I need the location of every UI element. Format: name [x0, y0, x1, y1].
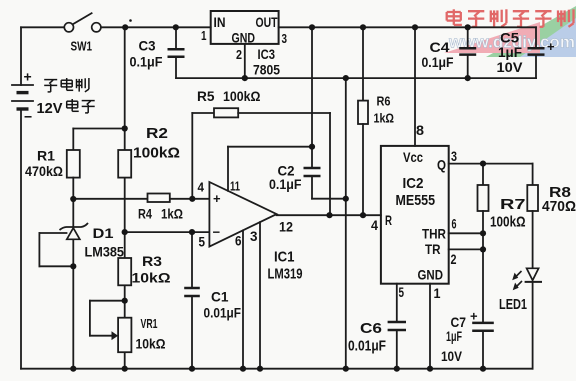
- resistor R7: [482, 164, 484, 185]
- wire R1 bottom to D1: [72, 178, 74, 227]
- junction dots bottom rail: [70, 366, 76, 372]
- svg-text:+: +: [470, 309, 478, 324]
- svg-text:470kΩ: 470kΩ: [25, 163, 63, 179]
- node D1 loop: [70, 263, 76, 269]
- capacitor C2: [304, 167, 321, 170]
- label 被监视: [44, 79, 57, 81]
- svg-text:+: +: [213, 191, 221, 206]
- svg-text:R5: R5: [197, 88, 215, 104]
- wire D1 side loop: [39, 232, 66, 234]
- svg-text:C3: C3: [139, 38, 156, 54]
- svg-text:+: +: [547, 39, 555, 54]
- svg-text:+: +: [24, 69, 32, 85]
- capacitor C5: [535, 27, 537, 48]
- op-amp IC1 LM319: [209, 182, 276, 247]
- svg-text:IC1: IC1: [274, 249, 295, 266]
- svg-text:R7: R7: [500, 196, 526, 213]
- resistor R8: [532, 164, 534, 185]
- capacitor C6: [388, 321, 406, 324]
- wire R1 top branch: [73, 128, 124, 130]
- svg-text:5: 5: [399, 284, 405, 300]
- watermark logo shapes: [444, 6, 576, 57]
- wire 555 Vcc pin 8: [414, 27, 416, 146]
- capacitor C3: [175, 27, 177, 49]
- wire op-amp pin 3: [259, 222, 261, 369]
- svg-text:1kΩ: 1kΩ: [161, 207, 183, 222]
- wire 555 THR pin 6: [449, 232, 483, 234]
- regulator IC3 7805: [211, 11, 279, 44]
- wire ground rail y78: [176, 77, 536, 79]
- svg-text:R4: R4: [138, 207, 152, 222]
- svg-text:SW1: SW1: [71, 39, 93, 54]
- svg-text:IC3: IC3: [258, 46, 276, 62]
- svg-text:R2: R2: [146, 125, 168, 142]
- svg-text:10V: 10V: [497, 59, 524, 75]
- svg-text:10kΩ: 10kΩ: [132, 270, 171, 286]
- resistor R1: [67, 150, 80, 178]
- wire R5 feedback left leg: [191, 113, 193, 199]
- LED LED1: [512, 268, 542, 368]
- svg-text:Vcc: Vcc: [403, 149, 423, 165]
- svg-text:0.01μF: 0.01μF: [204, 305, 242, 321]
- resistor R4: [148, 194, 170, 203]
- svg-text:R1: R1: [37, 148, 55, 164]
- speck artifact: [129, 19, 132, 22]
- svg-text:LM319: LM319: [268, 266, 303, 283]
- wire op-amp output pin 12: [277, 214, 381, 216]
- svg-text:3: 3: [250, 228, 258, 244]
- svg-text:6: 6: [235, 233, 242, 249]
- svg-text:OUT: OUT: [256, 14, 278, 30]
- svg-text:6: 6: [452, 216, 457, 232]
- switch SW1: [64, 13, 101, 32]
- wire R2 branch from top rail: [124, 27, 126, 150]
- svg-text:2: 2: [451, 251, 457, 267]
- svg-text:0.1μF: 0.1μF: [422, 54, 454, 70]
- 7805 pin 2 wire: [244, 44, 246, 78]
- svg-text:IC2: IC2: [403, 175, 424, 192]
- svg-text:THR: THR: [422, 226, 446, 242]
- svg-text:3: 3: [282, 31, 288, 46]
- timer IC2 ME555: [381, 146, 449, 284]
- svg-text:−: −: [213, 225, 221, 240]
- diode D1 LM385: [60, 223, 89, 239]
- svg-text:GND: GND: [418, 267, 444, 283]
- wire +5V drop to C2: [311, 27, 313, 168]
- wire top +12V rail left segment: [21, 26, 64, 28]
- svg-text:10kΩ: 10kΩ: [136, 337, 166, 352]
- node VR1 wiper: [122, 298, 128, 304]
- svg-text:11: 11: [230, 179, 240, 194]
- wire bottom ground rail: [21, 368, 533, 370]
- wire noninverting input row: [73, 198, 147, 200]
- node pin11: [309, 144, 315, 150]
- resistor R3: [118, 258, 131, 285]
- wire 555 pin 5 to C6: [396, 284, 398, 322]
- svg-text:5: 5: [199, 234, 206, 250]
- capacitor C4: [467, 27, 469, 48]
- svg-text:ME555: ME555: [396, 192, 436, 209]
- svg-text:R: R: [385, 212, 392, 228]
- svg-text:1kΩ: 1kΩ: [374, 111, 395, 126]
- svg-text:100kΩ: 100kΩ: [133, 145, 180, 162]
- nodes output rail: [326, 212, 332, 218]
- svg-text:R6: R6: [377, 94, 391, 109]
- capacitor C7: [472, 322, 494, 325]
- nodes Q / THR / TR column: [480, 161, 486, 167]
- junction dots top rail: [122, 24, 128, 30]
- wire left rail from battery: [20, 27, 22, 85]
- resistor R5: [214, 108, 238, 117]
- svg-text:100kΩ: 100kΩ: [490, 214, 526, 231]
- svg-text:IN: IN: [214, 14, 226, 30]
- potentiometer VR1: [118, 318, 131, 353]
- svg-text:10V: 10V: [441, 348, 463, 364]
- wire op-amp pin 6: [242, 230, 244, 368]
- svg-text:0.01μF: 0.01μF: [348, 338, 386, 355]
- svg-text:0.1μF: 0.1μF: [269, 176, 302, 192]
- capacitor C1: [191, 232, 193, 288]
- svg-text:LED1: LED1: [499, 296, 527, 313]
- battery 12V plates: [12, 85, 33, 109]
- node C2 gnd: [343, 196, 349, 202]
- wire 555 Q pin 3: [449, 163, 533, 165]
- wire 555 GND pin 1: [429, 284, 431, 369]
- svg-text:TR: TR: [425, 241, 441, 257]
- svg-text:4: 4: [198, 180, 205, 195]
- svg-text:8: 8: [416, 122, 424, 138]
- svg-text:2: 2: [236, 47, 242, 62]
- svg-text:12: 12: [279, 219, 293, 235]
- svg-text:C1: C1: [211, 289, 229, 305]
- svg-text:C6: C6: [360, 320, 382, 337]
- nodes inverting input: [122, 229, 128, 235]
- svg-text:1μF: 1μF: [498, 44, 522, 60]
- svg-text:Q: Q: [437, 157, 446, 173]
- svg-text:470Ω: 470Ω: [542, 198, 576, 215]
- node R1 top: [122, 125, 128, 131]
- svg-text:1: 1: [201, 28, 207, 43]
- svg-text:R3: R3: [142, 253, 162, 269]
- svg-text:7805: 7805: [253, 62, 280, 78]
- nodes noninverting input: [70, 196, 76, 202]
- svg-text:GND: GND: [232, 30, 256, 46]
- svg-text:12V: 12V: [37, 100, 63, 117]
- svg-text:−: −: [24, 109, 32, 125]
- svg-text:4: 4: [371, 217, 378, 233]
- resistor R2: [118, 150, 131, 178]
- svg-text:100kΩ: 100kΩ: [223, 88, 261, 104]
- wire op-amp pin 11: [227, 147, 229, 191]
- wire top +5V rail 7805 OUT to C5: [279, 26, 536, 28]
- watermark text 电子制作天地: [447, 11, 461, 13]
- wire R5 right leg to output: [238, 112, 330, 114]
- wire inverting input row: [125, 231, 210, 233]
- junction dots ground rail: [242, 75, 248, 81]
- wire 555 TR pin 2: [449, 248, 483, 250]
- wire ground drop x346: [345, 78, 347, 369]
- svg-text:1μF: 1μF: [446, 328, 462, 344]
- svg-text:C4: C4: [430, 39, 450, 55]
- svg-text:0.1μF: 0.1μF: [130, 54, 163, 70]
- svg-text:D1: D1: [93, 225, 114, 241]
- svg-text:VR1: VR1: [141, 316, 158, 331]
- wire top rail SW1 to 7805 IN: [101, 26, 211, 28]
- svg-text:1: 1: [434, 285, 441, 301]
- resistor R6: [362, 27, 364, 100]
- svg-text:3: 3: [451, 148, 457, 164]
- wire VR1 wiper: [90, 300, 125, 302]
